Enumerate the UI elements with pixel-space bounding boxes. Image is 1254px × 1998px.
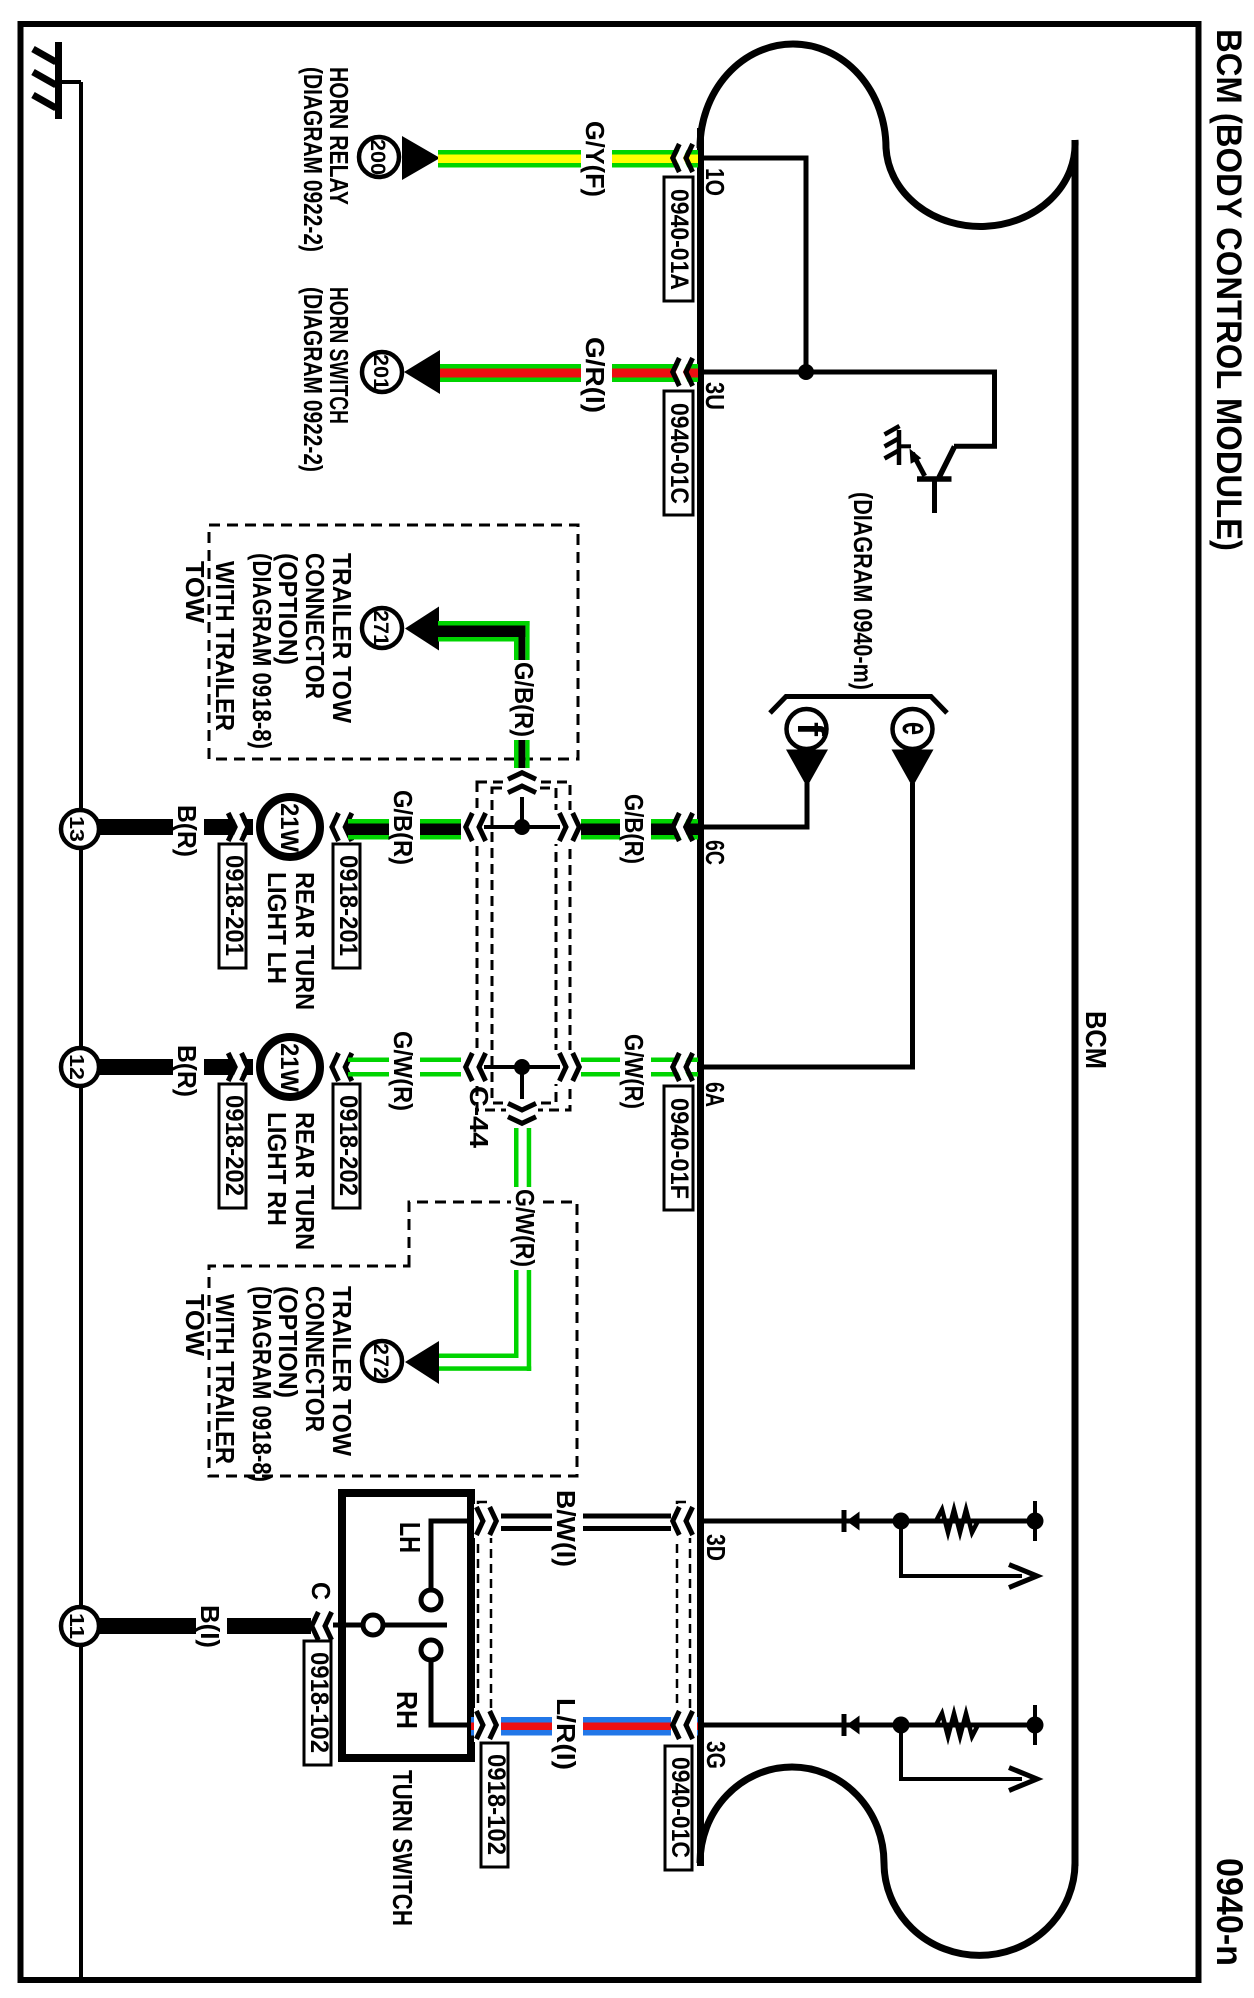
arrow branch 3G bbox=[901, 1725, 1037, 1791]
BCM module torn edge top bbox=[700, 44, 1075, 226]
turn switch box bbox=[342, 1493, 471, 1758]
transistor ground bbox=[885, 426, 900, 465]
chevron up to 271 bbox=[506, 768, 538, 797]
svg-text:B/W(I): B/W(I) bbox=[551, 1490, 581, 1567]
label G/B(R) bbox=[389, 788, 420, 868]
resistor at 3D bbox=[936, 1510, 978, 1533]
connector chevron left of bulb LH bbox=[228, 813, 248, 841]
bulb 21W REAR TURN LIGHT RH bbox=[260, 1037, 320, 1097]
label 0918-102 (switch side) bbox=[304, 1641, 333, 1765]
label HORN SWITCH (DIAGRAM 0922-2) bbox=[298, 287, 354, 472]
node 13 bbox=[61, 810, 99, 848]
terminal dot 3D bbox=[1027, 1513, 1044, 1530]
svg-text:RH: RH bbox=[390, 1691, 422, 1729]
ground (chassis) bbox=[33, 42, 59, 119]
terminal bar 3G bbox=[1033, 1705, 1037, 1745]
svg-text:G/B(R): G/B(R) bbox=[509, 662, 539, 737]
node 12 bbox=[61, 1048, 99, 1086]
chevron B/W at switch bbox=[474, 1504, 501, 1538]
svg-text:G/W(R): G/W(R) bbox=[619, 1034, 649, 1109]
label G/W(R) right bbox=[620, 1032, 651, 1112]
label G/B(R) right bbox=[620, 792, 651, 867]
svg-text:TRAILER TOW: TRAILER TOW bbox=[327, 1286, 357, 1456]
svg-text:21W: 21W bbox=[275, 1043, 303, 1092]
chevrons into C-44 on G/B wire bbox=[461, 810, 584, 844]
BCM module torn edge bottom bbox=[700, 1767, 1075, 1955]
svg-text:L/R(I): L/R(I) bbox=[551, 1698, 581, 1770]
BCM module bus line (left) bbox=[697, 128, 704, 1866]
svg-text:(DIAGRAM 0918-8): (DIAGRAM 0918-8) bbox=[247, 1286, 277, 1482]
svg-text:0918-102: 0918-102 bbox=[305, 1652, 333, 1753]
label G/R(I) bbox=[581, 335, 612, 416]
svg-text:0940-01A: 0940-01A bbox=[665, 189, 693, 290]
svg-text:CONNECTOR: CONNECTOR bbox=[300, 1286, 330, 1432]
diode at 3D bbox=[844, 1510, 860, 1532]
switch LH wire bbox=[431, 1521, 471, 1589]
svg-text:21W: 21W bbox=[275, 803, 303, 852]
svg-text:0918-202: 0918-202 bbox=[220, 1095, 248, 1196]
label TRAILER TOW CONNECTOR (OPTION) (DIAGRAM 0918-8) box 272 bbox=[247, 1286, 357, 1482]
dashed connector rail at BCM side bbox=[677, 1502, 690, 1717]
svg-text:13: 13 bbox=[65, 816, 87, 842]
node 11 bbox=[61, 1607, 99, 1645]
transistor Q1 bbox=[900, 446, 955, 513]
chevrons into C-44 on G/W wire bbox=[461, 1050, 584, 1084]
label REAR TURN LIGHT LH bbox=[262, 872, 320, 1010]
chevron down to 272 bbox=[506, 1099, 538, 1128]
resistor at 3G bbox=[936, 1714, 978, 1737]
label G/Y(F) bbox=[581, 119, 612, 200]
junction 3G bbox=[893, 1717, 910, 1734]
internal junction 1O/3U bbox=[798, 364, 814, 380]
svg-text:(DIAGRAM 0922-2): (DIAGRAM 0922-2) bbox=[298, 287, 328, 472]
svg-text:B(R): B(R) bbox=[172, 805, 202, 857]
dashed option box WITH TRAILER TOW (271) bbox=[209, 525, 578, 759]
wire G/W(R) branch to 272 bbox=[438, 1128, 531, 1371]
connector chevron at pin 6C bbox=[673, 813, 693, 841]
label 0918-102 (BCM side) bbox=[481, 1743, 510, 1867]
svg-text:f: f bbox=[789, 722, 831, 736]
junction G/W bbox=[514, 1059, 530, 1075]
wire ground stub bbox=[56, 80, 81, 84]
label B/W(I) bbox=[552, 1488, 583, 1570]
svg-text:3D: 3D bbox=[701, 1534, 731, 1561]
svg-text:(DIAGRAM 0918-8): (DIAGRAM 0918-8) bbox=[247, 553, 277, 749]
internal wire e to pin 6A bbox=[704, 783, 913, 1067]
chevron L/R at switch bbox=[474, 1708, 501, 1742]
label G/W(R) bbox=[389, 1029, 420, 1114]
label 0940-01C (pin 3U) bbox=[664, 391, 693, 515]
label TRAILER TOW CONNECTOR (OPTION) (DIAGRAM 0918-8) bbox=[247, 553, 357, 749]
label WITH TRAILER TOW bbox=[180, 561, 240, 731]
connector chevron at pin 3U bbox=[673, 358, 693, 386]
wire G/W(R) C-44 to pin 6A bbox=[581, 1058, 698, 1077]
svg-text:CONNECTOR: CONNECTOR bbox=[300, 553, 330, 699]
svg-text:G/B(R): G/B(R) bbox=[619, 794, 649, 864]
svg-text:0940-01C: 0940-01C bbox=[665, 403, 693, 504]
label 0918-202 (left) bbox=[219, 1084, 248, 1208]
svg-text:WITH TRAILER: WITH TRAILER bbox=[210, 1294, 240, 1464]
arrow at 201 bbox=[404, 350, 440, 394]
arrow at 200 bbox=[402, 136, 440, 180]
label G/W(R) branch bbox=[511, 1187, 542, 1270]
wire G/Y(F) horn relay to pin 1O bbox=[438, 150, 698, 168]
connector chevron at pin 6A bbox=[673, 1053, 693, 1081]
svg-text:G/R(I): G/R(I) bbox=[580, 337, 610, 413]
label 0940-01F bbox=[664, 1086, 693, 1210]
connector circle 272 bbox=[362, 1341, 402, 1381]
wire L/R(I) switch to pin 3G bbox=[471, 1717, 698, 1736]
wire B(R) node 13 to bulb bbox=[97, 819, 253, 835]
svg-text:6A: 6A bbox=[700, 1082, 730, 1107]
label 0918-202 (right) bbox=[333, 1084, 362, 1208]
branch stub to 271 chevron bbox=[520, 790, 524, 827]
svg-text:3U: 3U bbox=[700, 382, 730, 410]
connector chevron at pin 1O bbox=[673, 144, 693, 172]
svg-text:C-44: C-44 bbox=[464, 1086, 494, 1149]
svg-text:REAR TURN: REAR TURN bbox=[290, 872, 320, 1010]
label L/R(I) bbox=[552, 1696, 583, 1773]
label HORN RELAY (DIAGRAM 0922-2) bbox=[298, 67, 354, 252]
svg-text:11: 11 bbox=[65, 1613, 87, 1639]
svg-text:LH: LH bbox=[393, 1522, 425, 1553]
svg-text:TRAILER TOW: TRAILER TOW bbox=[327, 553, 357, 723]
svg-text:0940-01F: 0940-01F bbox=[665, 1098, 693, 1199]
terminal dot 3G bbox=[1027, 1717, 1044, 1734]
internal wire pin 3D bbox=[704, 1519, 1035, 1524]
svg-text:201: 201 bbox=[369, 354, 392, 390]
wire ground bus bbox=[79, 82, 83, 1977]
svg-text:0940-01C: 0940-01C bbox=[666, 1757, 694, 1858]
svg-text:0918-201: 0918-201 bbox=[334, 855, 362, 956]
connector circle 271 bbox=[362, 608, 402, 648]
svg-text:REAR TURN: REAR TURN bbox=[290, 1112, 320, 1250]
arrow at 272 bbox=[405, 1341, 439, 1384]
wire G/B(R) branch to 271 bbox=[438, 621, 530, 772]
svg-text:TURN SWITCH: TURN SWITCH bbox=[387, 1770, 418, 1926]
svg-text:G/W(R): G/W(R) bbox=[510, 1189, 540, 1267]
terminal bar 3D bbox=[1033, 1501, 1037, 1541]
svg-text:LIGHT RH: LIGHT RH bbox=[262, 1112, 292, 1226]
dashed option box WITH TRAILER TOW (272) bbox=[209, 1202, 577, 1476]
arrow below e bbox=[892, 750, 934, 788]
svg-text:1O: 1O bbox=[700, 168, 730, 196]
svg-text:G/B(R): G/B(R) bbox=[388, 790, 418, 865]
wire B(I) node 11 to switch bbox=[97, 1618, 311, 1634]
connector chevron at switch common bbox=[312, 1612, 332, 1640]
dashed connector rail at switch side bbox=[478, 1502, 491, 1717]
label 0940-01C (pin 3G) bbox=[665, 1746, 694, 1870]
svg-text:0918-102: 0918-102 bbox=[482, 1754, 510, 1855]
svg-text:LIGHT LH: LIGHT LH bbox=[262, 872, 292, 984]
svg-text:0918-202: 0918-202 bbox=[334, 1095, 362, 1196]
junction 3D bbox=[893, 1513, 910, 1530]
node e bbox=[893, 709, 937, 749]
label G/B(R) branch bbox=[510, 660, 541, 740]
internal wire from pin 3U to transistor bbox=[704, 372, 995, 446]
arrow at 271 bbox=[405, 607, 439, 651]
label 0940-01A bbox=[664, 177, 693, 301]
branch stub to 272 chevron bbox=[520, 1067, 524, 1104]
BCM module line (right) bbox=[1072, 140, 1079, 1866]
switch common wire bbox=[333, 1623, 363, 1628]
label REAR TURN LIGHT RH bbox=[262, 1112, 320, 1250]
wire G/R(I) horn switch to pin 3U bbox=[440, 364, 698, 382]
svg-text:TOW: TOW bbox=[180, 1294, 210, 1356]
connector chevron right of bulb RH bbox=[332, 1053, 352, 1081]
svg-text:0940-n: 0940-n bbox=[1209, 1858, 1250, 1966]
switch common contact bbox=[363, 1615, 383, 1635]
svg-text:12: 12 bbox=[65, 1054, 87, 1080]
wire G/B(R) bulb to C-44 bbox=[348, 819, 489, 840]
svg-text:272: 272 bbox=[369, 1343, 392, 1379]
wire G/W(R) bulb to C-44 bbox=[348, 1058, 489, 1077]
switch RH contact bbox=[421, 1640, 441, 1660]
switch RH wire bbox=[431, 1661, 471, 1725]
svg-text:0918-201: 0918-201 bbox=[220, 855, 248, 956]
wire G/B(R) C-44 to pin 6C bbox=[581, 819, 698, 840]
svg-text:3G: 3G bbox=[701, 1741, 731, 1769]
label 0918-201 (right) bbox=[333, 844, 362, 968]
switch arm bbox=[384, 1623, 447, 1628]
svg-text:TOW: TOW bbox=[180, 561, 210, 623]
diode at 3G bbox=[844, 1714, 860, 1736]
arrow branch 3D bbox=[901, 1521, 1037, 1588]
internal wire pin 3G bbox=[704, 1723, 1035, 1728]
svg-text:B(I): B(I) bbox=[195, 1605, 225, 1648]
svg-text:271: 271 bbox=[369, 610, 392, 646]
wire B(R) node 12 to bulb bbox=[97, 1059, 253, 1075]
svg-text:(DIAGRAM 0922-2): (DIAGRAM 0922-2) bbox=[298, 67, 328, 252]
connector circle 200 bbox=[359, 137, 399, 177]
bracket over f e bbox=[770, 697, 947, 714]
wire inside C-44 (G/B) bbox=[484, 825, 560, 829]
label B(R) bbox=[173, 803, 204, 860]
chevron B/W at BCM bbox=[671, 1504, 697, 1538]
switch LH contact bbox=[421, 1590, 441, 1610]
connector circle 201 bbox=[362, 352, 402, 392]
svg-text:(DIAGRAM 0940-m): (DIAGRAM 0940-m) bbox=[848, 492, 878, 690]
wire B/W(I) switch to pin 3D bbox=[471, 1514, 698, 1532]
node f bbox=[787, 709, 832, 749]
svg-text:C: C bbox=[306, 1582, 336, 1600]
svg-text:B(R): B(R) bbox=[172, 1045, 202, 1097]
bulb 21W REAR TURN LIGHT LH bbox=[260, 797, 320, 857]
label B(I) bbox=[196, 1603, 227, 1651]
arrow below f bbox=[786, 750, 828, 788]
connector chevron left of bulb RH bbox=[228, 1053, 248, 1081]
chevron L/R at BCM bbox=[671, 1708, 697, 1742]
connector chevron right of bulb LH bbox=[332, 813, 352, 841]
svg-text:6C: 6C bbox=[700, 840, 730, 865]
svg-text:G/W(R): G/W(R) bbox=[388, 1031, 418, 1111]
label B(R) row 12 bbox=[173, 1043, 204, 1100]
wire inside C-44 (G/W) bbox=[484, 1065, 560, 1069]
svg-text:WITH TRAILER: WITH TRAILER bbox=[210, 561, 240, 731]
svg-text:G/Y(F): G/Y(F) bbox=[580, 121, 610, 197]
label 0918-201 (left) bbox=[219, 844, 248, 968]
connector C-44 outer dashed box bbox=[477, 782, 570, 1110]
svg-text:BCM: BCM bbox=[1079, 1011, 1111, 1069]
svg-text:e: e bbox=[894, 722, 936, 735]
svg-text:BCM (BODY CONTROL MODULE): BCM (BODY CONTROL MODULE) bbox=[1209, 29, 1248, 551]
connector C-44 inner dashed box bbox=[492, 788, 556, 1103]
internal wire from pin 1O bbox=[704, 158, 806, 372]
internal wire f to pin 6C bbox=[704, 783, 807, 827]
label WITH TRAILER TOW box 272 bbox=[180, 1294, 240, 1464]
junction G/B bbox=[514, 819, 530, 835]
svg-text:200: 200 bbox=[366, 139, 389, 175]
